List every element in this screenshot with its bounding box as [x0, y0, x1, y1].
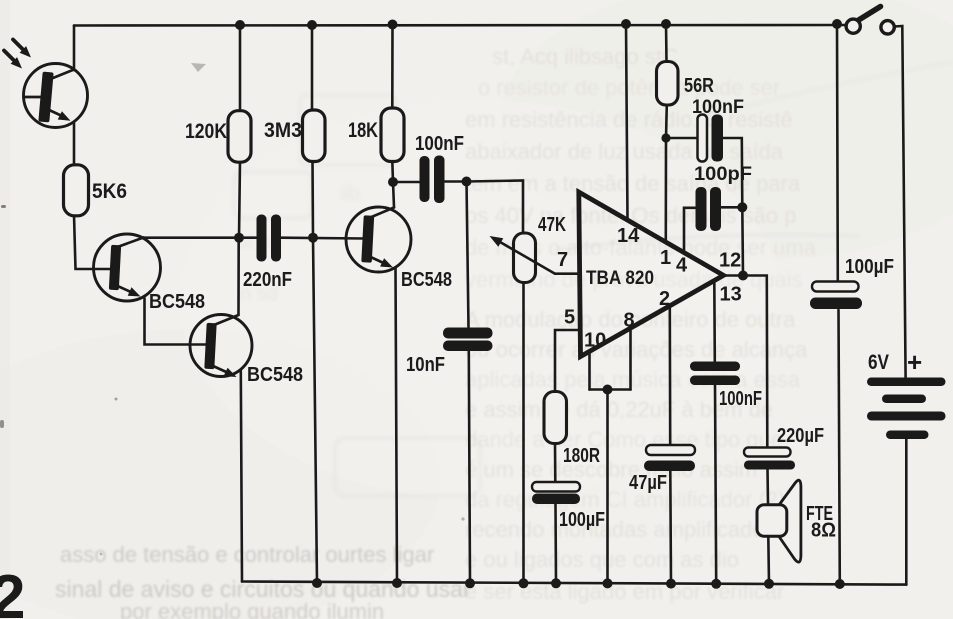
- capacitor 100pF: [696, 187, 722, 231]
- svg-text:180R: 180R: [563, 445, 600, 467]
- printing artifact: [191, 63, 206, 72]
- wire: 220uF to speaker: [766, 469, 769, 504]
- wire: Q4 collector vertical: [393, 182, 394, 207]
- junction dot top rail 18K: [388, 20, 398, 30]
- wire: pin 10 stub: [588, 352, 591, 390]
- junction dot 18K/Q4 collector node: [388, 177, 398, 187]
- svg-text:2: 2: [659, 288, 670, 310]
- svg-text:18K: 18K: [348, 119, 378, 142]
- svg-text:8Ω: 8Ω: [811, 520, 836, 542]
- capacitor 100nF feedback: [698, 115, 724, 162]
- wire: speaker to ground rail: [767, 536, 770, 584]
- capacitor 100uF supply filter: [810, 282, 862, 310]
- svg-text:3M3: 3M3: [264, 119, 302, 142]
- svg-text:asso de tensão e controlar o: asso de tensão e controlar ourtes ligar: [60, 542, 434, 567]
- resistor 180R: [544, 392, 567, 444]
- junction dot ground 100uF filter: [835, 579, 845, 589]
- wire: pin 5 to 180R: [555, 330, 579, 392]
- svg-text:e ou ligados que com as dio: e ou ligados que com as dio: [465, 547, 739, 572]
- light arrows into Q1: [4, 40, 31, 69]
- resistor 120K: [228, 111, 251, 163]
- svg-text:7: 7: [557, 249, 568, 271]
- wire: 100nF to node and over to 47K pot: [445, 181, 524, 234]
- junction dot 56R/100nF node: [661, 133, 670, 142]
- svg-text:ilb: ilb: [340, 183, 360, 205]
- wire: bottom ground rail: [242, 582, 906, 585]
- svg-text:dande a ser Como esse tipo qu: dande a ser Como esse tipo que: [465, 427, 783, 452]
- wire: 120K top lead: [239, 25, 242, 111]
- wire: 47uF to ground rail: [669, 471, 672, 584]
- junction dot top rail 120K: [235, 20, 245, 30]
- wire: 47K pot bottom to ground rail: [522, 283, 525, 584]
- junction dot ground pins 8-10: [603, 578, 613, 588]
- svg-text:6V: 6V: [868, 351, 889, 374]
- wire: Q3 emitter down to ground rail corner: [241, 371, 242, 582]
- phototransistor Q1: [24, 64, 88, 128]
- resistor 5K6: [64, 165, 128, 216]
- svg-text:220µF: 220µF: [777, 425, 824, 447]
- battery 6V: [867, 378, 946, 440]
- wire: pin 2 down to 47uF: [668, 306, 671, 445]
- svg-text:é um se descobre meio assim: é um se descobre meio assim: [465, 457, 757, 482]
- junction dot ground Q4 emitter: [392, 578, 402, 588]
- wire: 180R to 100uF: [554, 444, 557, 483]
- svg-text:st, Acq ilibsago stC: st, Acq ilibsago stC: [492, 44, 678, 69]
- wire: pin 14 line from rail: [626, 24, 628, 220]
- svg-text:100µF: 100µF: [845, 256, 894, 278]
- svg-text:BC548: BC548: [401, 269, 452, 291]
- junction dot ground 100uF/180R: [551, 578, 561, 588]
- svg-text:56R: 56R: [684, 75, 714, 97]
- wire: pin 7 lead: [555, 272, 578, 275]
- svg-text:por exemplo quando ilumin: por exemplo quando ilumin: [120, 599, 384, 619]
- svg-text:47K: 47K: [538, 214, 566, 236]
- wire: 3M3 top lead: [311, 25, 314, 111]
- junction dot 120K/220nF node: [234, 233, 244, 243]
- junction dot 100nF/10nF node: [462, 177, 472, 187]
- wire: Q1 emitter to 5K6: [73, 122, 76, 165]
- svg-text:8: 8: [624, 310, 635, 332]
- wire: 56R top lead: [665, 24, 668, 62]
- wire: pin 8 stub: [629, 328, 632, 389]
- svg-text:ou ocorrer as variações de alc: ou ocorrer as variações de alcança: [465, 337, 808, 362]
- wire: pins 8-10 tie bar: [590, 388, 631, 391]
- junction dot ground 10nF: [465, 578, 475, 588]
- svg-text:100nF: 100nF: [415, 133, 464, 155]
- wire: output from apex to 220uF: [724, 276, 768, 448]
- svg-text:TBA 820: TBA 820: [586, 267, 654, 289]
- junction dot 100pF node: [737, 202, 747, 212]
- resistor 56R: [657, 62, 679, 106]
- wire: 100pF left lead down to pin 4: [684, 208, 695, 253]
- svg-text:5K6: 5K6: [92, 180, 127, 203]
- wire: Q2 emitter elbow to Q3 base: [145, 298, 208, 345]
- wire: switch to battery positive: [895, 26, 906, 378]
- wire: Q2 collector node to 220nF and Q4 base: [143, 236, 364, 239]
- wire: 100nF right to vertical bus: [724, 138, 744, 276]
- svg-text:100nF: 100nF: [692, 97, 744, 118]
- wire: node down to 10nF: [467, 182, 469, 328]
- junction dot top rail pin14: [621, 19, 631, 29]
- junction dot 3M3/Q4 base node: [308, 233, 318, 243]
- svg-text:100pF: 100pF: [694, 164, 752, 185]
- capacitor 100uF below 180R: [532, 482, 580, 504]
- svg-text:13: 13: [720, 284, 742, 306]
- speaker FTE 8ohm: [757, 480, 801, 562]
- junction dot ground 47uF: [666, 579, 676, 589]
- svg-text:14: 14: [617, 225, 640, 247]
- wire: battery negative to ground rail corner: [905, 439, 908, 585]
- junction dot ground speaker: [764, 579, 774, 589]
- junction dot ground 100nF: [711, 579, 721, 589]
- wire: 18K top lead: [391, 25, 394, 109]
- junction dot ground 47K: [519, 578, 529, 588]
- svg-text:10: 10: [584, 330, 606, 352]
- wire: pins 8-10 node to ground rail: [606, 390, 609, 584]
- transistor Q4 BC548: [346, 207, 452, 291]
- wire: 120K bottom lead to node: [239, 161, 240, 238]
- svg-text:12: 12: [719, 250, 741, 272]
- switch S1: [846, 7, 894, 35]
- transistor Q3 BC548: [190, 315, 303, 387]
- svg-text:100µF: 100µF: [559, 509, 605, 531]
- wire: 100pF right lead to node: [722, 206, 743, 209]
- svg-text:10nF: 10nF: [406, 354, 445, 376]
- wire: Q3 collector vertical to node: [237, 238, 240, 314]
- capacitor 10nF: [443, 328, 493, 352]
- svg-text:BC548: BC548: [247, 364, 303, 386]
- wire: 5K6 to Q2 base: [74, 215, 112, 269]
- svg-text:100nF: 100nF: [719, 388, 762, 410]
- wire: 3M3 bottom lead through node to ground rail: [313, 161, 318, 583]
- svg-text:BC548: BC548: [149, 291, 205, 313]
- junction dot output apex node: [738, 271, 748, 281]
- resistor 3M3: [303, 110, 326, 162]
- wire: 10nF to ground rail: [469, 352, 470, 584]
- svg-text:da regulagem CI amplificador: da regulagem CI amplificador (2): [465, 487, 785, 512]
- svg-text:+: +: [907, 347, 922, 377]
- wire: Q4 emitter down to ground rail: [396, 268, 398, 583]
- svg-text:47µF: 47µF: [629, 472, 667, 494]
- wire: 18K bottom lead to node: [391, 161, 394, 182]
- capacitor 100nF coupling: [420, 156, 445, 204]
- potentiometer 47K: [490, 233, 556, 283]
- wire: node to 100nF coupling cap: [393, 181, 419, 184]
- wire: 100uF filter to ground rail: [839, 310, 840, 584]
- capacitor 220nF: [257, 215, 282, 262]
- wire: pin 13 down to 100nF: [713, 281, 716, 362]
- junction dot pins 8-10: [603, 385, 613, 395]
- svg-text:2: 2: [0, 563, 25, 619]
- transistor Q2 BC548: [94, 234, 206, 313]
- junction dot top rail 3M3: [307, 20, 317, 30]
- svg-text:5: 5: [564, 307, 575, 329]
- op-amp U1 TBA 820: [557, 192, 742, 357]
- capacitor 220uF: [744, 448, 795, 470]
- svg-text:220nF: 220nF: [243, 269, 292, 291]
- wire: top supply rail: [74, 24, 846, 27]
- wire: 100uF to ground rail: [554, 504, 557, 584]
- svg-text:abaixador de luz usada na saíd: abaixador de luz usada na saída: [465, 139, 784, 164]
- wire: supply bus down to 100uF filter: [836, 24, 839, 282]
- capacitor 100nF at pin 13: [690, 362, 740, 386]
- wire: node to 100nF feedback cap: [666, 137, 697, 140]
- svg-text:4: 4: [676, 255, 688, 277]
- junction dot ground 3M3: [312, 578, 322, 588]
- svg-text:1: 1: [660, 247, 671, 269]
- junction dot top rail supply bus: [832, 19, 842, 29]
- capacitor 47uF: [644, 445, 695, 471]
- resistor 18K: [381, 108, 404, 162]
- junction dot top rail 56R: [661, 19, 671, 29]
- wire: 100nF to ground rail: [715, 385, 716, 584]
- wire: rail to Q1 collector: [73, 26, 76, 71]
- wire: 56R bottom to node, down to pin 1: [666, 105, 667, 242]
- svg-text:recendo montadas amplificadore: recendo montadas amplificadores: [465, 517, 795, 542]
- svg-text:120K: 120K: [185, 120, 227, 143]
